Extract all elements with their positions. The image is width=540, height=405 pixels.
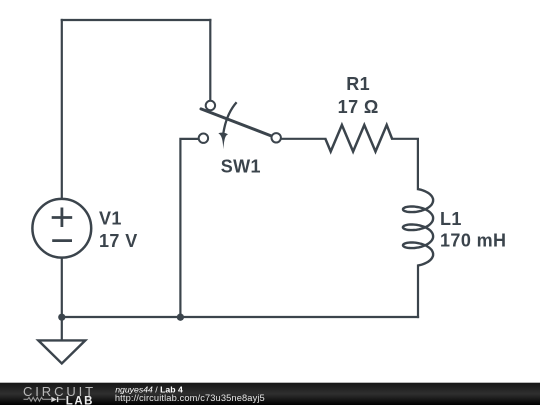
switch right terminal circle <box>272 133 281 142</box>
svg-text:17 V: 17 V <box>99 231 138 251</box>
switch left terminal circle <box>199 134 208 143</box>
wire left vertical from top to V1 <box>61 20 63 199</box>
wire V1 bottom lead to ground node <box>61 258 63 317</box>
wire ground stem <box>61 317 63 340</box>
wire bottom horizontal <box>62 316 418 318</box>
wire R1 right to inductor top <box>392 139 418 189</box>
logo diode <box>51 397 57 402</box>
node junction dot left <box>58 314 65 321</box>
switch top terminal circle <box>206 101 215 110</box>
svg-text:L1: L1 <box>440 209 462 229</box>
wire inductor bottom lead <box>417 266 419 318</box>
voltage source V1 <box>32 199 91 258</box>
wire top horizontal <box>62 19 211 21</box>
wire switch left lead and vertical leg <box>180 139 199 317</box>
svg-text:SW1: SW1 <box>221 157 261 177</box>
ground symbol <box>38 340 85 363</box>
switch arrowhead <box>218 133 228 150</box>
switch SW1 <box>199 101 281 149</box>
wire switch top lead <box>209 20 211 100</box>
wire switch right lead to R1 <box>281 138 325 140</box>
resistor R1 <box>325 125 392 152</box>
svg-text:LAB: LAB <box>66 396 94 405</box>
switch blade <box>201 109 272 136</box>
svg-text:R1: R1 <box>346 74 370 94</box>
svg-text:V1: V1 <box>99 208 122 228</box>
node junction dot middle <box>177 314 184 321</box>
svg-text:170 mH: 170 mH <box>440 230 506 250</box>
logo resistor squiggle <box>24 397 52 401</box>
svg-text:17 Ω: 17 Ω <box>338 97 379 117</box>
inductor L1 <box>403 189 433 265</box>
switch motion arc <box>223 102 236 133</box>
svg-text:http://circuitlab.com/c73u35ne: http://circuitlab.com/c73u35ne8ayj5 <box>115 393 265 403</box>
